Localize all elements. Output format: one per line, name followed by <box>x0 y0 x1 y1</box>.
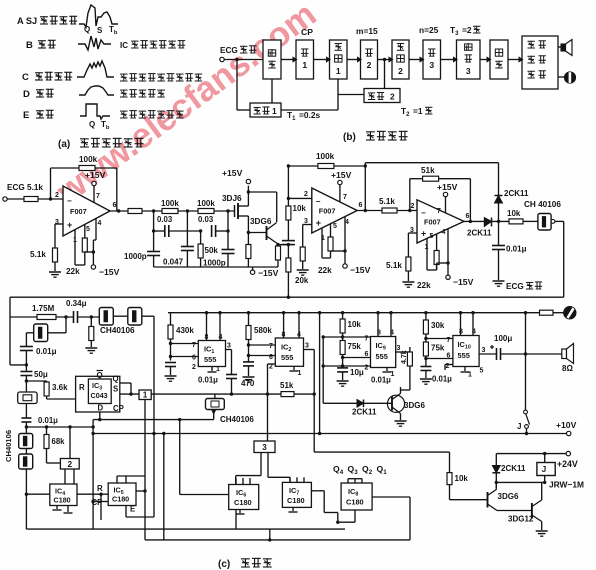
svg-text:Q: Q <box>97 371 103 380</box>
IC5 C180 flip-flop <box>108 483 136 506</box>
waveform B differentiated trace <box>78 36 111 50</box>
svg-text:+15V: +15V <box>331 170 352 180</box>
svg-text:−15V: −15V <box>453 277 474 287</box>
schmitt inverter left column 2 <box>25 449 27 455</box>
resistor 22k U3 offset <box>434 251 439 265</box>
wire U1 pin3 to ground resistor <box>55 223 63 225</box>
svg-text:3: 3 <box>305 343 309 350</box>
wire IC7 to IC8 <box>311 490 324 492</box>
svg-text:−: − <box>421 208 426 217</box>
svg-text:T3: T3 <box>450 25 459 37</box>
svg-text:2: 2 <box>411 203 415 210</box>
block oscillator <box>490 40 508 79</box>
svg-text:2: 2 <box>304 191 308 198</box>
wire schmitt output down to return line <box>555 220 564 222</box>
svg-text:CP: CP <box>113 404 124 413</box>
wire FET source to Q1 base <box>248 232 266 234</box>
wire block2 outputs to IC4 <box>64 469 66 484</box>
wire IC9 pin feeds <box>343 336 371 338</box>
svg-text:J: J <box>517 422 521 431</box>
svg-text:2: 2 <box>365 365 369 372</box>
wire U3 pin4 to -15V <box>447 229 449 275</box>
IC6 C180 counter <box>229 485 259 510</box>
wire U2 pin2 <box>288 197 311 199</box>
svg-text:+15V: +15V <box>85 170 106 180</box>
svg-text:6: 6 <box>359 202 363 209</box>
capacitor 1000p output shunt <box>227 231 229 250</box>
svg-text:0.03: 0.03 <box>198 215 214 224</box>
block gate2 <box>361 40 378 79</box>
resistor 3.6k <box>46 381 48 382</box>
capacitor IC1 output coupling <box>226 374 237 376</box>
svg-text:0.01μ: 0.01μ <box>198 376 218 385</box>
svg-text:E: E <box>130 505 135 514</box>
wire schmitt mid output left <box>213 414 215 420</box>
diode 2CK11 gating <box>323 402 357 404</box>
resistor 100k U1 feedback <box>79 166 95 171</box>
wire IC9 power stubs <box>377 313 379 337</box>
diode 2CK11 relay clamp <box>495 454 497 488</box>
svg-text:C180: C180 <box>112 495 129 504</box>
label CH40106 vertical <box>4 430 13 462</box>
wire to speaker <box>501 353 562 355</box>
svg-text:3.6k: 3.6k <box>52 383 68 392</box>
wire vertical input chain U2 <box>287 166 289 206</box>
svg-text:F007: F007 <box>319 207 336 216</box>
svg-text:7: 7 <box>269 343 273 350</box>
block pulse shaper 1 <box>139 390 151 400</box>
svg-text:5: 5 <box>333 223 337 230</box>
wire U1 offset pins <box>74 230 76 265</box>
IC3 C043 latch inner <box>88 379 111 404</box>
wire drain rail to Q1 collector <box>247 190 250 193</box>
svg-text:R: R <box>79 383 85 392</box>
wire bottom rail 2 <box>145 539 410 541</box>
svg-text:3DJ6: 3DJ6 <box>222 194 242 203</box>
schmitt inverter buffer2 <box>113 315 128 317</box>
svg-text:+15V: +15V <box>222 168 243 178</box>
supply -15V U2 <box>343 264 347 268</box>
wire block2 to rail <box>69 427 71 459</box>
resistor osc divider <box>90 315 93 318</box>
wire latch to box1 <box>120 393 139 395</box>
watermark www.elecfans.com <box>49 0 324 212</box>
svg-text:51k: 51k <box>280 381 294 390</box>
wire osc input node <box>9 317 11 365</box>
svg-text:=2: =2 <box>462 25 472 35</box>
svg-text:2: 2 <box>398 66 403 76</box>
wire control to timer1 <box>271 79 273 103</box>
svg-text:1: 1 <box>298 370 302 377</box>
svg-text:−: − <box>316 197 321 206</box>
svg-text:(b): (b) <box>343 132 356 143</box>
svg-text:6: 6 <box>192 355 196 362</box>
wire left edge down from return line <box>9 297 11 317</box>
resistor 100k U2 feedback <box>318 164 334 169</box>
svg-text:2: 2 <box>68 460 73 469</box>
svg-text:6: 6 <box>365 351 369 358</box>
wire gate2 to counter2 <box>378 59 393 61</box>
svg-text:Q1: Q1 <box>377 464 388 476</box>
svg-text:0.01μ: 0.01μ <box>371 376 391 385</box>
ground IC4 <box>56 506 58 510</box>
node B filter mid <box>178 210 198 212</box>
svg-text:68k: 68k <box>52 437 66 446</box>
svg-text:Q: Q <box>113 375 119 384</box>
svg-text:50k: 50k <box>205 246 219 255</box>
relay J coil <box>537 463 555 476</box>
svg-text:10μ: 10μ <box>350 368 364 377</box>
svg-text:C043: C043 <box>91 391 108 400</box>
capacitor 0.01u osc input <box>25 333 27 347</box>
speaker 8ohm <box>562 349 567 359</box>
svg-text:3: 3 <box>227 343 231 350</box>
svg-text:1: 1 <box>468 372 472 379</box>
wire filter ground rail <box>154 266 278 268</box>
svg-text:+: + <box>67 220 72 230</box>
svg-text:22k: 22k <box>417 281 431 290</box>
wire timer2 tap to main wire <box>384 60 386 89</box>
svg-text:2CK11: 2CK11 <box>352 408 377 417</box>
wire U1 pin4 to -15V <box>95 218 97 240</box>
lamp indicator <box>564 307 576 319</box>
diode 2CK11 clamp vertical <box>498 163 500 222</box>
svg-text:CH40106: CH40106 <box>220 415 254 424</box>
svg-text:0.01μ: 0.01μ <box>36 347 57 356</box>
svg-text:F007: F007 <box>70 207 87 216</box>
svg-text:Q4: Q4 <box>333 464 344 476</box>
svg-text:(c): (c) <box>218 559 230 570</box>
svg-text:0.047: 0.047 <box>163 258 184 267</box>
svg-text:7: 7 <box>343 194 347 201</box>
svg-text:ECG: ECG <box>506 282 524 291</box>
svg-text:2CK11: 2CK11 <box>467 229 492 238</box>
wire +10V rail <box>93 433 566 435</box>
wire input node down to timer1 <box>236 60 238 111</box>
svg-text:ECG 5.1k: ECG 5.1k <box>7 183 43 192</box>
IC8 C180 counter <box>341 483 372 510</box>
svg-text:T2: T2 <box>401 106 410 118</box>
supply +15V FET <box>246 179 250 183</box>
svg-text:n=25: n=25 <box>419 25 439 35</box>
svg-text:470: 470 <box>241 379 255 388</box>
wire IC10 pin2 <box>445 364 453 366</box>
svg-text:555: 555 <box>458 351 470 360</box>
svg-text:5.1k: 5.1k <box>379 197 395 206</box>
ground IC7 <box>292 507 294 511</box>
resistor 68k <box>46 427 48 435</box>
svg-text:20k: 20k <box>295 276 309 285</box>
capacitor 0.03 series second <box>211 225 213 237</box>
svg-text:3: 3 <box>466 66 471 76</box>
resistor 5.1k U1 noninverting <box>53 248 58 262</box>
svg-text:+10V: +10V <box>556 420 577 430</box>
svg-text:1: 1 <box>336 66 341 76</box>
svg-text:5: 5 <box>86 226 90 233</box>
svg-text:Q2: Q2 <box>362 464 373 476</box>
block gate3 <box>423 40 441 79</box>
svg-text:R: R <box>97 484 103 493</box>
ground pulse node <box>493 280 505 282</box>
svg-text:580k: 580k <box>254 326 272 335</box>
ground U2 pin3 <box>302 261 304 269</box>
IC1 555 timer <box>198 341 225 367</box>
ground IC1 pin1 <box>211 367 213 372</box>
svg-text:2: 2 <box>55 192 59 199</box>
wire latch D input stub <box>99 412 101 420</box>
svg-text:Tb: Tb <box>101 120 110 131</box>
wire diode to schmitt input node <box>492 220 510 222</box>
svg-text:m=15: m=15 <box>356 26 378 36</box>
svg-text:A SJ: A SJ <box>17 16 37 26</box>
capacitor 50u electrolytic <box>25 365 27 372</box>
svg-text:100k: 100k <box>197 199 215 208</box>
node CP bus lower <box>153 434 155 518</box>
svg-text:D: D <box>23 89 30 100</box>
svg-text:8Ω: 8Ω <box>562 364 573 373</box>
svg-text:2: 2 <box>390 92 395 102</box>
wire aux bus x319 <box>319 313 321 434</box>
svg-text:E: E <box>23 110 29 121</box>
svg-text:2CK11: 2CK11 <box>501 464 526 473</box>
svg-text:5.1k: 5.1k <box>30 250 46 259</box>
transistor 3DG12 output <box>497 510 532 512</box>
schmitt inverter osc feedback <box>34 324 48 342</box>
block counter2 <box>392 40 409 79</box>
svg-text:50μ: 50μ <box>34 370 48 379</box>
svg-text:1: 1 <box>272 106 277 116</box>
ground IC2 pin1 <box>293 366 295 370</box>
waveform A ECG trace <box>79 5 118 27</box>
wire IC2 power stubs <box>283 313 285 338</box>
wire U2 pin4 to -15V <box>344 217 346 264</box>
svg-text:0.01μ: 0.01μ <box>506 245 527 254</box>
svg-text:0.01μ: 0.01μ <box>432 375 452 384</box>
wire IC1 pin feeds <box>171 343 199 345</box>
svg-text:5: 5 <box>430 233 434 240</box>
capacitor 0.01u IC10 <box>420 366 431 368</box>
capacitor 0.01u pulse node <box>498 221 500 245</box>
svg-text:100k: 100k <box>161 199 179 208</box>
waveform D integrated trace <box>79 86 114 95</box>
wire box3 to IC6 <box>260 453 262 476</box>
wire left bus down <box>92 420 94 529</box>
legend row E implementation text <box>120 110 128 112</box>
resistor 1.75M oscillator <box>10 316 37 318</box>
ground IC10 pin1 <box>464 367 466 372</box>
svg-text:−15V: −15V <box>258 268 279 278</box>
transistor 3DG6 gate <box>364 402 393 404</box>
resistor 430k <box>170 313 172 325</box>
wire U2 output bypass rail to diode node <box>365 162 498 164</box>
svg-text:−15V: −15V <box>99 267 120 277</box>
IC2 555 timer <box>275 338 303 366</box>
svg-text:100k: 100k <box>316 152 335 161</box>
wire U2 feedback <box>288 165 318 167</box>
wire left column to IC4 <box>25 469 27 494</box>
transistor 3DG6 relay driver <box>487 492 489 508</box>
ground IC6 <box>239 510 241 514</box>
block timer2 <box>364 89 400 103</box>
capacitor coupling U2 <box>287 220 289 241</box>
IC6 top stubs <box>235 478 237 485</box>
svg-text:(a): (a) <box>58 139 70 150</box>
wire U2 offset pins <box>321 228 323 258</box>
resistor 100k filter second <box>198 209 214 214</box>
svg-text:10k: 10k <box>455 474 469 483</box>
svg-text:CH 40106: CH 40106 <box>524 200 561 209</box>
svg-text:75k: 75k <box>431 344 445 353</box>
svg-text:10k: 10k <box>293 204 307 213</box>
wire Vdd rail 555s <box>168 312 540 314</box>
resistor 100k filter first <box>162 209 178 214</box>
supply -15V U1 <box>91 265 95 269</box>
wire aux bus x163 <box>163 434 165 540</box>
svg-text:7: 7 <box>192 342 196 349</box>
svg-text:1: 1 <box>302 60 307 70</box>
wire IC10 pin feeds <box>426 338 453 340</box>
IC10 555 timer <box>453 336 479 367</box>
svg-text:F007: F007 <box>424 217 441 226</box>
svg-text:555: 555 <box>281 353 293 362</box>
wire FET drain to +15V <box>238 205 248 207</box>
wire U2 output <box>357 210 382 212</box>
speaker icon <box>558 46 561 48</box>
svg-text:CH40106: CH40106 <box>100 326 135 335</box>
wire control to gate1 <box>281 59 296 61</box>
svg-text:6: 6 <box>113 202 117 209</box>
resistor 10k U2 input <box>286 206 291 220</box>
svg-text:=0.2s: =0.2s <box>299 110 321 120</box>
block divide box3 <box>254 441 275 453</box>
lamp icon <box>558 76 564 78</box>
wire FET source <box>238 215 248 217</box>
svg-text:430k: 430k <box>176 326 194 335</box>
svg-text:51k: 51k <box>421 166 435 175</box>
wire U3 feedback <box>409 179 411 211</box>
ground U3 pin3 <box>407 271 409 281</box>
svg-text:1000p: 1000p <box>203 259 226 268</box>
resistor 51k U3 feedback <box>423 176 439 181</box>
resistor 51k pulse line <box>281 392 294 397</box>
wire counter1 to timer2 <box>338 94 364 96</box>
resistor 5.1k U2-U3 series <box>382 208 397 213</box>
block gate1 <box>296 40 314 79</box>
wire IC4 to IC5 <box>77 493 108 495</box>
wire IC5 E output <box>125 506 127 518</box>
capacitor 470 timing <box>243 361 254 363</box>
svg-text:7: 7 <box>447 337 451 344</box>
wire Q1 emitter to coupling cap <box>278 244 288 246</box>
svg-text:3DG6: 3DG6 <box>498 492 519 501</box>
block counter1 <box>330 40 348 79</box>
svg-text:=1: =1 <box>413 106 423 116</box>
svg-text:0.01μ: 0.01μ <box>38 416 58 425</box>
svg-text:2: 2 <box>192 364 196 371</box>
schmitt trigger mid CH40106 <box>214 394 216 398</box>
waveform C full-wave rectified trace <box>77 61 114 77</box>
svg-text:ECG: ECG <box>220 46 238 55</box>
IC9 555 timer <box>371 337 396 368</box>
svg-text:1.75M: 1.75M <box>32 304 55 313</box>
switch J power <box>525 313 527 410</box>
svg-text:3: 3 <box>429 60 434 70</box>
svg-text:3: 3 <box>482 347 486 354</box>
IC3 C043 latch outer box <box>76 376 120 412</box>
svg-text:555: 555 <box>376 352 388 361</box>
resistor 75k IC9 <box>342 333 344 341</box>
svg-text:22k: 22k <box>318 266 332 275</box>
svg-text:3DG6: 3DG6 <box>250 217 272 226</box>
schmitt inverter buffer1 <box>78 316 100 318</box>
resistor lamp feed <box>540 310 554 315</box>
capacitor 0.01u left column <box>21 417 31 419</box>
wire box1 down <box>144 400 146 477</box>
wire counter1 to gate2 <box>347 59 361 61</box>
op-amp U1 F007 <box>63 186 110 236</box>
resistor 30k IC10 <box>425 313 427 320</box>
wire to IC6 input <box>179 420 181 495</box>
svg-text:C180: C180 <box>287 496 305 505</box>
block divide-by-2 <box>60 459 79 470</box>
wire long ECG return line <box>10 296 564 298</box>
wire IC10 power stubs <box>460 313 462 336</box>
resistor Q1 emitter <box>276 243 279 246</box>
wire U3 output <box>464 220 484 222</box>
wire lower cap path left <box>153 211 155 231</box>
svg-text:J: J <box>542 465 546 474</box>
wire U2 pin3 ground leg <box>303 224 312 226</box>
svg-text:3: 3 <box>397 345 401 352</box>
svg-text:4: 4 <box>442 229 446 236</box>
capacitor 1000p input shunt <box>152 229 155 232</box>
svg-text:7: 7 <box>437 208 441 215</box>
wire left column down <box>25 404 27 419</box>
wire box1 output line <box>151 393 314 395</box>
svg-text:S: S <box>113 385 118 394</box>
resistor 580k <box>248 313 250 326</box>
svg-text:22k: 22k <box>66 267 80 276</box>
svg-text:1: 1 <box>216 366 220 373</box>
svg-text:C180: C180 <box>54 496 71 505</box>
resistor 50k from cap-path node <box>200 231 202 244</box>
svg-text:0.03: 0.03 <box>157 215 173 224</box>
block timer1 <box>250 103 281 117</box>
svg-text:−15V: −15V <box>350 265 371 275</box>
IC4 C180 flip-flop <box>50 484 77 506</box>
terminal +10V <box>567 431 571 435</box>
legend row C implementation text <box>120 73 128 75</box>
svg-text:6: 6 <box>447 353 451 360</box>
wire osc output to CP bus <box>142 315 154 317</box>
resistor 10k IC9 <box>342 313 344 319</box>
svg-text:IC: IC <box>120 41 128 50</box>
svg-text:+24V: +24V <box>557 459 578 469</box>
wire relay top rail <box>496 453 566 455</box>
svg-text:C: C <box>22 72 29 83</box>
svg-text:D: D <box>98 404 104 413</box>
svg-text:30k: 30k <box>431 321 445 330</box>
svg-text:4: 4 <box>98 220 102 227</box>
resistor 75k IC10 <box>425 334 427 342</box>
waveform E shaped pulse trace <box>80 104 110 119</box>
op-amp U2 F007 <box>312 188 357 233</box>
svg-text:C180: C180 <box>234 498 252 507</box>
svg-text:3DG6: 3DG6 <box>404 401 425 410</box>
wire timer1 to counter1 <box>281 109 338 111</box>
capacitor IC1 timing <box>165 362 176 364</box>
svg-text:CP: CP <box>301 27 313 37</box>
